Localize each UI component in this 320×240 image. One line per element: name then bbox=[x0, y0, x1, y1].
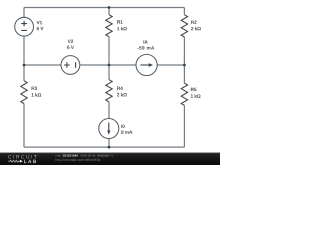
junction node mid rail right bbox=[183, 64, 186, 67]
resistor R5 bbox=[181, 83, 187, 105]
wire right R2 to R5 bbox=[183, 37, 185, 83]
junction node left middle rail bbox=[23, 64, 26, 67]
voltage source V1 bbox=[15, 17, 34, 36]
wire right top lead to R2 bbox=[183, 8, 185, 15]
wire middle rail center segment bbox=[80, 64, 136, 66]
wire middle rail right segment bbox=[157, 64, 184, 66]
wire mid I0 to bottom rail bbox=[108, 138, 110, 147]
CircuitLab logo arrow bbox=[20, 160, 23, 163]
CircuitLab logo LAB bbox=[24, 160, 36, 163]
label V1 6 V bbox=[37, 21, 44, 30]
label R3 1 kohm bbox=[32, 87, 42, 97]
resistor R3 bbox=[21, 81, 27, 104]
label V2 6 V bbox=[67, 40, 74, 49]
label IA -59 mA bbox=[137, 40, 154, 49]
current source I0 bbox=[99, 119, 119, 139]
wire bottom rail bbox=[24, 146, 184, 148]
footer meta line 1 bbox=[55, 154, 113, 156]
wire left R3 to bottom bbox=[23, 104, 25, 148]
wire left top lead to V1 bbox=[23, 8, 25, 18]
current source IA bbox=[136, 54, 157, 75]
label I0 8 mA bbox=[121, 125, 132, 134]
wire mid branch top lead to R1 bbox=[108, 8, 110, 15]
label R4 2 kohm bbox=[117, 87, 127, 97]
junction node mid rail R1-R4 bbox=[108, 64, 111, 67]
voltage source V2 bbox=[61, 56, 80, 75]
CircuitLab logo resistor squiggle bbox=[8, 160, 20, 162]
CircuitLab logo CIRCUIT bbox=[8, 155, 37, 159]
resistor R1 bbox=[106, 15, 112, 37]
label R1 1 kohm bbox=[117, 20, 127, 30]
wire top rail bbox=[24, 7, 184, 9]
footer url line 2 bbox=[56, 159, 101, 162]
label R5 1 kohm bbox=[191, 88, 201, 98]
label R2 2 kohm bbox=[191, 21, 201, 31]
wire middle rail left segment bbox=[24, 64, 61, 66]
resistor R4 bbox=[106, 80, 112, 102]
junction node bottom I0 branch bbox=[108, 146, 111, 149]
wire mid R1 to middle rail bbox=[108, 37, 110, 80]
wire right R5 to bottom bbox=[183, 105, 185, 147]
wire left V1 to R3 bbox=[23, 36, 25, 81]
resistor R2 bbox=[181, 15, 187, 37]
junction node top R1 branch bbox=[108, 6, 111, 9]
wire mid R4 to I0 bbox=[108, 102, 110, 119]
